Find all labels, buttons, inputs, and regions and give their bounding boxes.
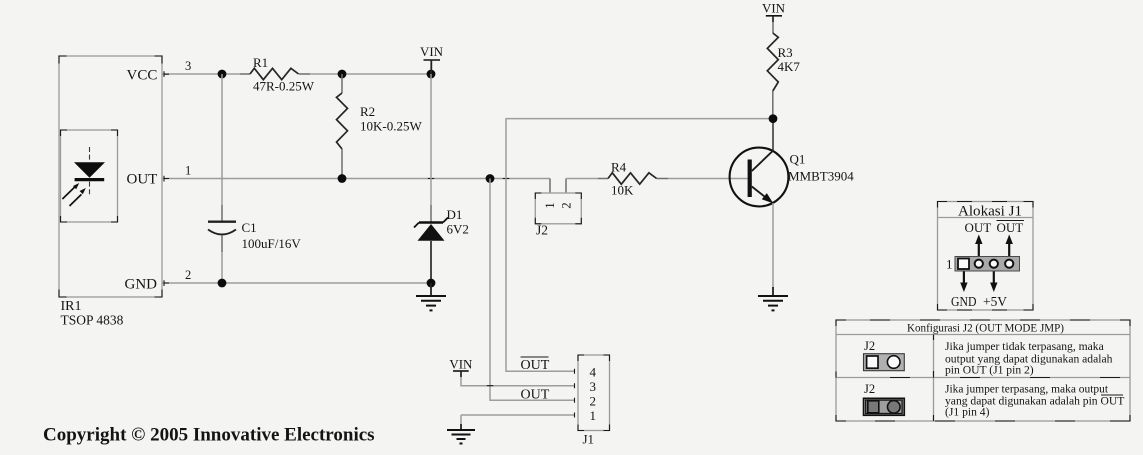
- svg-text:C1: C1: [242, 220, 257, 235]
- svg-text:OUT: OUT: [997, 220, 1024, 235]
- svg-text:Copyright © 2005 Innovative El: Copyright © 2005 Innovative Electronics: [43, 425, 375, 446]
- svg-text:R2: R2: [360, 104, 375, 119]
- wire OUT net (TSOP pin1 to R2 bottom, D1 crossing, J2): [162, 176, 550, 182]
- svg-text:OUT: OUT: [521, 358, 550, 373]
- svg-text:1: 1: [590, 408, 597, 423]
- junction dot OUT/R2: [338, 174, 347, 183]
- wire OUT branch down to J1 pin 2: [490, 179, 574, 401]
- svg-text:4: 4: [590, 365, 597, 380]
- net label OUT-bar (J1 pin4): [521, 357, 550, 373]
- svg-text:3: 3: [590, 379, 597, 394]
- arrow down from pin1: [960, 272, 967, 293]
- wire J2 pin2 to R4: [566, 178, 598, 180]
- no-connect tick VIN-wire/OUT-branch crossing: [487, 385, 493, 387]
- connector J2: [535, 179, 581, 238]
- svg-text:4K7: 4K7: [778, 59, 801, 74]
- IC IR1 TSOP4838 body: [59, 56, 162, 297]
- IR arrows into photodiode: [62, 183, 85, 206]
- arrow up from pin2: [975, 235, 982, 257]
- jumper J2 open graphic (row 1): [864, 339, 905, 371]
- svg-text:2: 2: [590, 394, 597, 409]
- svg-text:MMBT3904: MMBT3904: [788, 169, 854, 184]
- svg-text:OUT: OUT: [521, 388, 550, 403]
- junction dot GND/D1: [427, 279, 436, 288]
- svg-text:J2: J2: [864, 382, 875, 396]
- svg-text:J2: J2: [864, 339, 875, 353]
- svg-text:1: 1: [185, 164, 191, 178]
- svg-text:R3: R3: [778, 45, 793, 60]
- svg-text:D1: D1: [447, 207, 463, 222]
- row2 description text: [945, 383, 1124, 419]
- junction dot GND/C1: [218, 279, 227, 288]
- svg-text:Konfigurasi J2 (OUT MODE JMP): Konfigurasi J2 (OUT MODE JMP): [907, 321, 1064, 335]
- power VIN (top of R2/R1 node): [420, 44, 444, 74]
- ground symbol at D1: [416, 283, 446, 310]
- no-connect tick OUTbar/OUT crossing: [503, 178, 509, 180]
- svg-text:VIN: VIN: [449, 357, 473, 372]
- svg-text:Alokasi J1: Alokasi J1: [958, 204, 1022, 220]
- svg-text:1: 1: [543, 202, 557, 208]
- junction dot VCC/R2: [338, 70, 347, 79]
- arrow down from pin3: [990, 272, 997, 293]
- svg-text:TSOP 4838: TSOP 4838: [61, 313, 124, 328]
- svg-text:47R-0.25W: 47R-0.25W: [253, 79, 315, 94]
- svg-text:2: 2: [559, 202, 573, 208]
- wire GND to J1 pin1: [461, 415, 574, 430]
- svg-text:GND: GND: [125, 277, 158, 293]
- junction dot collector/R3: [769, 114, 778, 123]
- svg-text:pin OUT (J1 pin 2): pin OUT (J1 pin 2): [945, 364, 1034, 377]
- svg-text:GND: GND: [951, 295, 977, 310]
- wire R4 to Q1 base: [657, 178, 668, 180]
- junction dot VCC/VIN: [427, 70, 436, 79]
- svg-text:VCC: VCC: [127, 68, 158, 84]
- power VIN (top, above R3): [762, 1, 786, 33]
- no-connect tick D1/OUT crossing: [428, 178, 434, 180]
- junction dot VCC/C1: [218, 70, 227, 79]
- IR1 inner sensor box: [61, 130, 118, 222]
- row1 description text: [945, 340, 1113, 377]
- svg-text:3: 3: [185, 59, 191, 73]
- J1 header graphic in table: [946, 257, 1020, 272]
- svg-text:100uF/16V: 100uF/16V: [242, 236, 302, 251]
- svg-text:2: 2: [185, 268, 191, 282]
- capacitor C1: [208, 74, 301, 283]
- transistor Q1 MMBT3904: [730, 119, 855, 289]
- svg-text:VIN: VIN: [762, 1, 786, 16]
- svg-text:J1: J1: [583, 432, 595, 447]
- svg-text:Jika jumper tidak terpasang, m: Jika jumper tidak terpasang, maka: [945, 340, 1104, 353]
- wire VCC net (TSOP pin3 to R1, R2 top, VIN): [162, 71, 431, 77]
- svg-text:10K: 10K: [611, 183, 634, 198]
- svg-text:R1: R1: [253, 55, 268, 70]
- power VIN (J1 pin3): [449, 357, 574, 386]
- svg-text:OUT: OUT: [127, 172, 158, 188]
- resistor R2: [337, 74, 423, 175]
- svg-text:+5V: +5V: [983, 295, 1007, 310]
- ground symbol at J1 pin1: [447, 430, 475, 444]
- jumper J2 closed graphic (row 2): [864, 382, 905, 415]
- svg-text:R4: R4: [611, 160, 627, 175]
- svg-text:VIN: VIN: [420, 44, 444, 59]
- svg-text:1: 1: [946, 257, 953, 272]
- svg-text:10K-0.25W: 10K-0.25W: [360, 119, 422, 134]
- photodiode D (inside IR1): [74, 147, 105, 196]
- wire OUT-bar (collector to J1 pin 4): [506, 119, 773, 372]
- table Konfigurasi J2: [836, 320, 1130, 421]
- svg-text:OUT: OUT: [965, 220, 992, 235]
- resistor R1: [250, 55, 315, 94]
- table Alokasi J1: [938, 202, 1034, 311]
- ground symbol at Q1 emitter: [758, 287, 788, 310]
- junction dot OUT/J1pin2 branch: [486, 174, 495, 183]
- resistor R3: [767, 33, 800, 115]
- resistor R4: [608, 160, 657, 198]
- no-connect tick C1/OUT crossing: [219, 178, 225, 180]
- svg-text:Q1: Q1: [790, 152, 806, 167]
- svg-text:(J1 pin 4): (J1 pin 4): [945, 406, 990, 419]
- connector J1: [575, 355, 610, 447]
- arrow up from pin4: [1006, 235, 1013, 257]
- svg-text:J2: J2: [536, 223, 548, 238]
- wire GND net (TSOP pin2 to C1, D1 bottom): [162, 280, 431, 286]
- svg-text:6V2: 6V2: [447, 222, 469, 237]
- zener D1: [414, 74, 469, 282]
